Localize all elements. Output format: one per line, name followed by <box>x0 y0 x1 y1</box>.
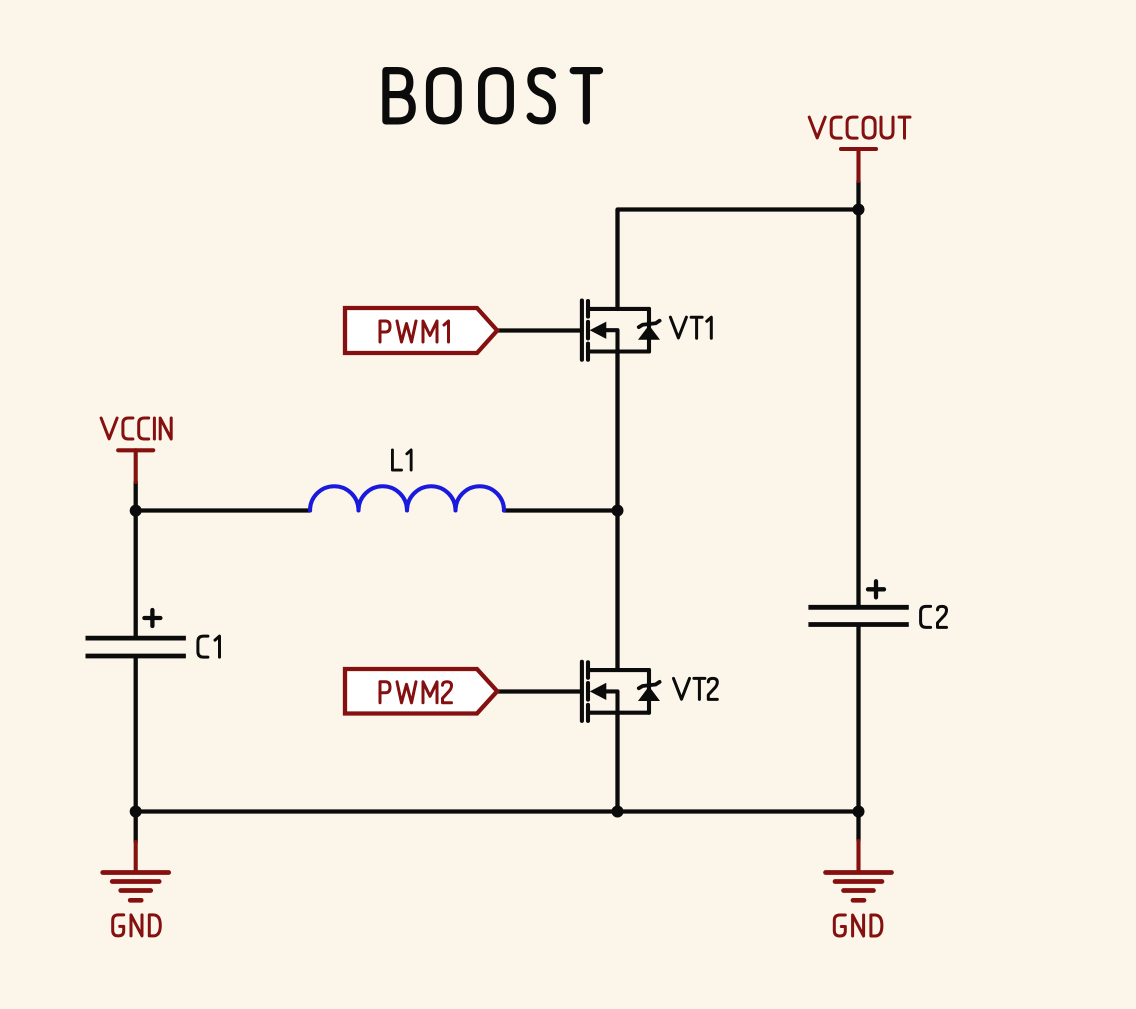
plus mark C1 <box>144 610 160 626</box>
junction node VCCIN/L1/C1 <box>130 505 142 517</box>
label PWM2 <box>380 682 452 703</box>
wire VCCIN stem <box>134 482 138 511</box>
wire node A to VT2 drain <box>615 510 619 670</box>
wire PWM1 to gate <box>497 328 582 332</box>
title BOOST <box>386 71 600 121</box>
label C2 <box>921 606 947 627</box>
wire VT2 source to rail <box>615 713 619 812</box>
junction bottom rail middle <box>612 806 624 818</box>
net flag PWM2 <box>345 669 497 714</box>
label C1 <box>198 636 220 657</box>
junction bottom rail left <box>130 806 142 818</box>
wire VCCOUT stem <box>856 181 860 210</box>
wire C2 top <box>856 210 860 606</box>
label VCCIN <box>101 418 171 439</box>
capacitor C2 (polarized) <box>808 607 908 624</box>
wire top rail <box>618 210 859 310</box>
inductor L1 <box>310 486 504 510</box>
wire C1 bottom <box>134 658 138 842</box>
ground right <box>826 841 892 900</box>
label PWM1 <box>380 321 449 342</box>
wire VT1 source to node A <box>615 352 619 511</box>
power symbol VCCOUT <box>841 149 876 181</box>
junction bottom rail right <box>853 806 865 818</box>
transistor VT2 (N-MOSFET with body diode) <box>582 662 660 721</box>
label GND (right) <box>834 915 882 936</box>
label VCCOUT <box>809 117 910 138</box>
plus mark C2 <box>868 581 884 597</box>
wire L1 right <box>504 508 618 512</box>
label L1 <box>392 450 411 470</box>
wire L1 left <box>136 508 310 512</box>
ground left <box>103 842 169 900</box>
wire C1 top <box>134 511 138 636</box>
wire PWM2 to gate <box>497 689 582 693</box>
capacitor C1 (polarized) <box>86 638 186 656</box>
junction node A (L1/VT1/VT2) <box>612 505 624 517</box>
net flag PWM1 <box>345 308 497 353</box>
wire C2 bottom <box>856 627 860 842</box>
transistor VT1 (N-MOSFET with body diode) <box>582 301 660 360</box>
label VT1 <box>670 317 711 338</box>
wire bottom rail <box>136 809 859 813</box>
junction VCCOUT rail <box>853 204 865 216</box>
power symbol VCCIN <box>118 450 153 482</box>
label VT2 <box>674 678 718 699</box>
label GND (left) <box>113 915 161 936</box>
